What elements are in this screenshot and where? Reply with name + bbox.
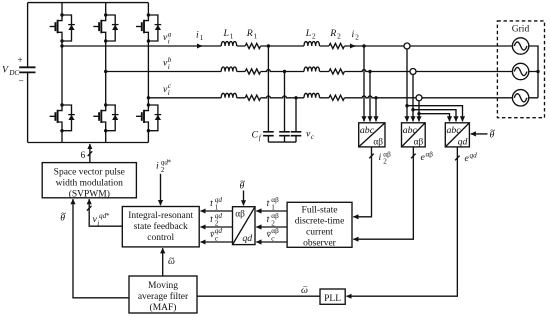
node: i2 sense tap phase b [368,70,371,73]
svg-text:c: c [311,133,315,141]
svg-text:qd: qd [242,233,252,244]
transistor Q1 [50,15,62,41]
svg-text:control: control [147,233,174,243]
wire: i2 c to abc block U1 [375,98,377,122]
node: phase b output tap [104,70,107,73]
transistor Q4 [50,105,62,131]
node: Q2 bottom terminal [104,39,107,42]
wire: Cf common star bus [268,141,296,143]
inductor L2 phase b [304,67,320,72]
svg-text:ˆ: ˆ [210,200,213,209]
wire: inverter leg b [105,3,107,143]
svg-text:i: i [168,89,170,97]
node: grid voltage terminal phase b [410,69,416,75]
label VDC with polarity [2,56,24,87]
inductor L1 phase c [221,93,237,98]
wire: ihat2 qd to controller [201,226,233,228]
label e ab [421,150,434,163]
svg-text:~: ~ [240,177,245,187]
wire: vhat c qd to controller [201,241,233,243]
svg-text:i: i [97,220,99,228]
svg-text:C: C [252,130,259,141]
svg-text:i: i [156,161,159,172]
label e qd [465,151,478,164]
wire: DC link branch [27,3,29,143]
node: Q4 bottom terminal [60,129,63,132]
node: Q4 top terminal [60,103,63,106]
svg-text:−: − [303,283,308,293]
node: i2 sense tap phase c [374,96,377,99]
svg-text:1: 1 [271,204,275,212]
block Full-state discrete-time current observer [287,202,352,248]
label Cf [252,130,262,143]
label theta tilde left [60,209,66,223]
node: Q5 bottom terminal [104,129,107,132]
block U4: alpha-beta to qd transform [233,207,256,245]
wire: e b to abc/qd block U3 [413,110,456,122]
svg-text:1: 1 [254,33,258,41]
node: Cf tap phase b [283,70,286,73]
svg-text:L: L [223,28,229,39]
wire: observer ihat2 ab out [256,226,287,228]
svg-text:(MAF): (MAF) [150,302,177,313]
node: Cf tap phase c [294,96,297,99]
block PLL [320,289,345,304]
node: e a branch junction [405,104,408,107]
node: Q1 bottom terminal [60,39,63,42]
svg-text:1: 1 [200,34,204,42]
svg-text:Space vector pulse: Space vector pulse [54,167,125,177]
svg-text:width modulation: width modulation [56,178,124,188]
block SVPWM [42,163,136,200]
capacitor VDC (DC link) [19,67,35,72]
wire: e alpha-beta to observer [353,147,413,239]
label i2qd* [156,159,172,175]
svg-text:i: i [168,37,170,45]
wire: e qd to PLL [347,147,458,296]
svg-text:2: 2 [337,33,341,41]
wire: Cf branch phase b [284,72,286,132]
wire: observer vhat c ab out [256,241,287,243]
node: grid voltage terminal phase c [416,95,422,101]
resistor R2 phase b [329,69,344,74]
wire: theta tilde into U3 block [471,133,488,135]
wire: current reference i2qd* into controller [160,174,162,205]
node: e b branch junction [411,108,414,111]
label theta tilde right [490,126,496,140]
node: Q3 bottom terminal [147,39,150,42]
node: Q1 top terminal [60,13,63,16]
svg-text:6: 6 [81,151,86,161]
svg-text:*: * [106,212,110,220]
node: phase a output tap [60,44,63,47]
label omega tilde [168,255,175,267]
block Integral-resonant state feedback control [122,207,199,247]
svg-text:(SVPWM): (SVPWM) [69,188,110,199]
svg-text:observer: observer [303,238,337,248]
bus tick: 6 signals [88,151,93,156]
svg-text:R: R [246,28,253,39]
svg-text:Integral-resonant: Integral-resonant [128,211,193,221]
wire: i2 b to abc block U1 [369,72,371,122]
DC bus bottom rail wire [28,142,149,144]
bus tick vi qd* [87,206,92,211]
svg-text:state feedback: state feedback [134,221,188,232]
svg-text:Moving: Moving [148,281,178,291]
node: Cf tap phase a [267,44,270,47]
wire: ihat1 qd to controller [201,210,233,212]
label vhat c qd [210,227,222,243]
svg-text:~: ~ [61,209,66,219]
AC source Vb [512,63,528,79]
svg-text:i: i [379,152,382,163]
svg-text:ˆ: ˆ [267,200,270,209]
label vi qd* [93,212,111,228]
svg-text:*: * [168,159,172,167]
wire: PLL to MAF omega bar [197,295,320,297]
svg-text:i: i [352,29,355,40]
capacitor Cf phase a [263,132,274,136]
svg-text:abc: abc [360,125,375,136]
svg-text:1: 1 [230,33,234,41]
svg-text:αβ: αβ [426,150,434,158]
svg-text:−: − [19,77,24,87]
node: phase c output tap [147,96,150,99]
svg-text:Full-state: Full-state [302,205,338,215]
svg-text:αβ: αβ [373,137,383,147]
AC source Va [512,38,528,54]
svg-text:~: ~ [490,126,495,136]
wire: Cf branch phase a [267,46,269,132]
inductor L2 phase c [304,93,320,98]
DC bus top rail wire [28,2,149,4]
inductor L2 phase a [304,42,320,47]
svg-text:R: R [329,28,336,39]
svg-text:ˆ: ˆ [211,231,214,240]
diode D4 (antiparallel with Q4) [62,105,75,131]
svg-text:~: ~ [169,255,174,265]
wire: Cf branch phase c [295,98,297,132]
label R1 [246,28,258,41]
node: grid neutral junction [536,70,539,73]
svg-text:abc: abc [403,125,418,136]
svg-text:V: V [2,65,9,76]
wire: omega tilde MAF to controller [162,248,164,276]
svg-text:2: 2 [161,166,165,174]
wire: phase c line [148,96,512,98]
diode D5 (antiparallel with Q5) [106,105,119,131]
wire: inverter leg c [147,3,149,143]
wire: inverter leg a [61,3,63,143]
wire: e a drop to U2 [406,49,408,121]
svg-text:ˆ: ˆ [268,231,271,240]
wire: i2 alpha-beta to observer [353,147,371,217]
transistor Q6 [136,105,148,131]
resistor R2 phase c [329,95,344,100]
grid enclosure (dashed) [497,21,544,118]
svg-text:i: i [196,30,199,41]
svg-text:qd: qd [458,136,468,147]
label vi b [163,56,172,71]
block U3 (abc to qd, voltage e) [445,123,469,148]
wire: e c drop to U2 [418,101,420,122]
node: Q6 top terminal [147,103,150,106]
label vhat c ab [267,227,280,243]
wire: 6 gate signals SVPWM to inverter [89,144,91,163]
transistor Q3 [136,15,148,41]
diode D6 (antiparallel with Q6) [148,105,161,131]
svg-text:L: L [305,28,311,39]
wire: phase a line [62,45,513,47]
block U2 (abc to alpha-beta, voltage e) [402,123,426,148]
node: Q6 bottom terminal [147,129,150,132]
svg-text:2: 2 [312,33,316,41]
bus tick i2 ab [369,154,374,159]
wire: i2 a to abc block U1 [363,46,365,121]
capacitor Cf phase b [279,132,290,136]
transistor Q2 [93,15,105,41]
node: e c branch junction [417,112,420,115]
label L1 [223,28,234,41]
wire: e b drop to U2 [412,75,414,122]
label L2 [305,28,316,41]
node: Q5 top terminal [104,103,107,106]
label omega bar [301,283,308,296]
wire: theta tilde MAF to SVPWM [73,199,129,298]
svg-text:2: 2 [355,34,359,42]
wire: e c to abc/qd block U3 [419,114,450,122]
inductor L1 phase b [221,67,237,72]
label theta tilde top [240,177,246,191]
node: i2 sense tap phase a [362,44,365,47]
svg-text:current: current [306,227,333,237]
block U1 (abc to alpha-beta, current i2) [359,123,385,148]
svg-text:Grid: Grid [512,25,530,35]
svg-text:αβ: αβ [414,137,424,147]
svg-text:1: 1 [215,204,219,212]
label vi c [163,82,172,97]
diode D3 (antiparallel with Q3) [148,15,161,41]
label vc [306,129,315,142]
capacitor Cf phase c [291,132,302,136]
label ihat2 ab [267,212,280,228]
resistor R1 phase b [245,69,260,74]
wire: vi qd* controller to SVPWM [89,199,122,226]
bus tick e qd [455,156,460,161]
svg-text:f: f [259,134,262,142]
resistor R2 phase a [329,43,344,48]
current arrow i1 [197,45,202,47]
svg-text:+: + [18,56,23,66]
svg-text:average filter: average filter [138,291,189,302]
svg-text:2: 2 [383,157,387,165]
svg-text:αβ: αβ [235,210,245,220]
label ihat1 qd [210,196,222,212]
inductor L1 phase a [221,42,237,47]
diode D1 (antiparallel with Q1) [62,15,75,41]
wire: observer ihat1 ab out [256,210,287,212]
label R2 [329,28,341,41]
resistor R1 phase a [245,43,260,48]
block Moving average filter (MAF) [129,276,197,313]
wire: phase b line [106,70,513,72]
label i2 ab [379,150,392,165]
node: Q2 top terminal [104,13,107,16]
svg-text:PLL: PLL [324,294,341,304]
wire: e a to abc/qd block U3 [407,106,463,122]
current arrow i2 [350,45,355,47]
label ihat2 qd [210,212,222,228]
transistor Q5 [93,105,105,131]
svg-text:abc: abc [447,125,462,136]
node: grid voltage terminal phase a [404,43,410,49]
svg-text:i: i [168,63,170,71]
label vi a [163,30,172,45]
wire: grid neutral bus [529,46,538,98]
label ihat1 ab [267,196,280,212]
svg-text:qd: qd [470,151,478,159]
diode D2 (antiparallel with Q2) [106,15,119,41]
node: Q3 top terminal [147,13,150,16]
svg-text:ˆ: ˆ [210,216,213,225]
svg-text:ˆ: ˆ [267,216,270,225]
svg-text:discrete-time: discrete-time [295,216,345,226]
resistor R1 phase c [245,95,260,100]
AC source Vc [512,90,528,106]
wire: theta tilde into U4 transform [243,191,245,206]
bus tick e ab [411,154,416,159]
